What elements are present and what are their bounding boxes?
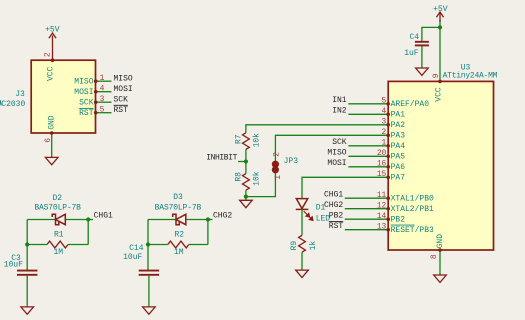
+5V power symbol at U3	[436, 12, 443, 17]
svg-text:2: 2	[382, 128, 387, 137]
svg-text:C2030: C2030	[1, 100, 25, 109]
capacitor C4 1uF	[415, 42, 429, 46]
svg-text:MOSI: MOSI	[74, 88, 93, 97]
wire R8 bottom to JP3 pin 1	[246, 173, 276, 197]
svg-text:VCC: VCC	[434, 87, 443, 102]
wire U3 PA7 to LED D1	[302, 177, 388, 198]
wire label CHG2 to U3 pin 12	[345, 208, 388, 210]
svg-text:GND: GND	[48, 115, 57, 130]
svg-text:CHG1: CHG1	[94, 212, 113, 221]
svg-text:9: 9	[432, 73, 441, 78]
svg-text:R8: R8	[234, 172, 243, 182]
wire R7 top to U3 PA2	[246, 125, 388, 133]
wire JP3 pin 2 to U3 PA3	[275, 135, 388, 161]
svg-text:16: 16	[377, 160, 387, 169]
svg-text:R1: R1	[54, 230, 64, 239]
wire R9 to ground	[301, 252, 303, 270]
LED D1	[296, 199, 309, 210]
svg-text:1: 1	[100, 74, 105, 83]
wire to diode D3 cathode	[148, 219, 176, 221]
svg-text:MISO: MISO	[327, 148, 346, 157]
svg-text:5: 5	[100, 106, 105, 115]
junction +5V node	[438, 25, 442, 29]
svg-text:MOSI: MOSI	[114, 85, 133, 94]
svg-text:6: 6	[44, 138, 53, 143]
wire +5V node to C4	[422, 27, 440, 41]
svg-text:PB2: PB2	[391, 215, 406, 224]
wire LED cathode to R9	[301, 209, 303, 235]
wire stub to INHIBIT label	[238, 161, 246, 163]
svg-text:IN1: IN1	[332, 96, 347, 105]
wire label RST to U3 pin 13	[345, 229, 388, 231]
svg-text:RST: RST	[329, 222, 344, 231]
svg-text:1: 1	[382, 139, 387, 148]
svg-text:CHG2: CHG2	[324, 201, 343, 210]
svg-text:C4: C4	[409, 33, 419, 42]
svg-text:VCC: VCC	[47, 66, 56, 81]
svg-text:MISO: MISO	[74, 78, 93, 87]
wire R1 right	[68, 244, 88, 246]
svg-text:10k: 10k	[252, 171, 261, 186]
svg-text:1M: 1M	[53, 248, 63, 257]
ground below R9	[296, 270, 309, 277]
svg-text:2: 2	[273, 152, 282, 157]
svg-text:PB2: PB2	[329, 211, 344, 220]
svg-text:+5V: +5V	[433, 5, 448, 14]
resistor R9 1k	[299, 235, 306, 252]
svg-text:PA2: PA2	[391, 121, 406, 130]
wire label IN1 to U3 pin 5	[348, 103, 388, 105]
svg-text:2: 2	[43, 52, 52, 57]
svg-text:INHIBIT: INHIBIT	[206, 154, 237, 163]
svg-text:CHG2: CHG2	[213, 212, 232, 221]
svg-text:IN2: IN2	[332, 106, 347, 115]
ground below U3	[434, 275, 447, 282]
svg-text:1: 1	[274, 175, 283, 180]
svg-text:SCK: SCK	[114, 95, 129, 104]
wire left rail to C3	[26, 220, 28, 271]
svg-text:3: 3	[100, 95, 105, 104]
svg-text:4: 4	[382, 107, 387, 116]
resistor R1 1M	[47, 241, 68, 248]
wire R8 bottom	[245, 190, 247, 200]
svg-text:8: 8	[430, 254, 439, 259]
J3 pin 3 (SCK) pin line	[96, 101, 111, 103]
wire R2 left	[148, 244, 168, 246]
resistor R7 10k	[243, 133, 250, 150]
svg-text:PA4: PA4	[391, 142, 406, 151]
junction INHIBIT node	[244, 159, 248, 163]
svg-text:SCK: SCK	[79, 99, 94, 108]
junction at C3 rail	[25, 242, 29, 246]
svg-text:PA7: PA7	[391, 173, 406, 182]
wire +5V to U3 VCC pin 9	[439, 20, 441, 81]
svg-text:BAS70LP-7B: BAS70LP-7B	[34, 203, 81, 212]
svg-text:R9: R9	[290, 241, 299, 251]
ground below C3	[21, 307, 34, 314]
wire diode D3 anode to CHG2 node	[186, 219, 208, 221]
svg-text:ATtiny24A-MM: ATtiny24A-MM	[443, 72, 498, 81]
wire C3 to ground	[26, 275, 28, 307]
svg-text:10uF: 10uF	[123, 253, 142, 262]
IC U3 ATtiny24A-MM body	[388, 81, 493, 250]
resistor R2 1M	[168, 241, 189, 248]
svg-text:PA1: PA1	[391, 110, 406, 119]
diode D3 BAS70LP-7B	[173, 214, 186, 225]
junction at C14 rail	[146, 242, 150, 246]
svg-text:D2: D2	[52, 194, 62, 203]
J3 pin 2 (VCC) line up	[52, 36, 54, 61]
svg-text:RST: RST	[114, 106, 129, 115]
junction R8 bottom node	[244, 195, 248, 199]
wire label PB2 to U3 pin 14	[345, 218, 388, 220]
wire to diode D2 cathode	[27, 219, 55, 221]
LED D1 emission arrows	[304, 211, 313, 220]
svg-text:XTAL1/PB0: XTAL1/PB0	[391, 194, 434, 203]
ground below J3	[45, 157, 58, 164]
svg-text:JP3: JP3	[284, 157, 299, 166]
J3 pin 5 (RST) pin line	[96, 112, 111, 114]
svg-text:C14: C14	[129, 244, 144, 253]
svg-text:1k: 1k	[309, 241, 318, 251]
jumper JP3	[272, 161, 279, 168]
junction CHG1 node	[86, 217, 90, 221]
svg-text:5: 5	[382, 97, 387, 106]
wire label SCK to U3 pin 1	[348, 145, 388, 147]
svg-text:R7: R7	[234, 134, 243, 144]
wire R7 bottom to R8 top	[245, 149, 247, 173]
svg-text:13: 13	[377, 223, 387, 232]
svg-text:20: 20	[377, 149, 387, 158]
J3 pin 1 (MISO) pin line	[96, 80, 111, 82]
wire label MISO to U3 pin 20	[348, 155, 388, 157]
svg-text:10uF: 10uF	[4, 260, 23, 269]
wire C14 to ground	[148, 275, 150, 307]
wire left rail to C14	[147, 220, 149, 271]
wire label CHG1 to U3 pin 11	[345, 197, 388, 199]
svg-text:RST: RST	[79, 109, 94, 118]
connector J3 body	[31, 60, 95, 133]
svg-text:R2: R2	[174, 230, 184, 239]
wire D3 anode down to R2	[207, 220, 209, 245]
ground below R8	[240, 200, 253, 207]
svg-text:MISO: MISO	[114, 74, 133, 83]
svg-text:D3: D3	[173, 193, 183, 202]
wire label IN2 to U3 pin 4	[348, 113, 388, 115]
ground below C4	[416, 68, 429, 75]
wire label MOSI to U3 pin 16	[348, 166, 388, 168]
wire D2 anode down to R1	[87, 220, 89, 245]
svg-text:12: 12	[377, 202, 387, 211]
svg-text:11: 11	[377, 191, 387, 200]
resistor R8 10k	[243, 174, 250, 191]
svg-text:15: 15	[377, 170, 387, 179]
wire diode D2 anode to CHG1 node	[65, 219, 88, 221]
J3 pin 4 (MOSI) pin line	[96, 91, 111, 93]
junction CHG2 node	[206, 217, 210, 221]
wire stub to CHG2 label	[208, 219, 213, 221]
wire U3 GND pin 8 to ground	[439, 250, 441, 275]
svg-text:SCK: SCK	[332, 138, 347, 147]
svg-text:RESET/PB3: RESET/PB3	[391, 226, 434, 235]
svg-text:+5V: +5V	[45, 26, 60, 35]
svg-text:PA6: PA6	[391, 163, 406, 172]
svg-text:3: 3	[382, 118, 387, 127]
wire R2 right	[189, 244, 208, 246]
svg-text:14: 14	[377, 212, 387, 221]
svg-text:PA5: PA5	[391, 152, 406, 161]
diode D2 BAS70LP-7B	[52, 214, 65, 225]
svg-text:AREF/PA0: AREF/PA0	[391, 100, 430, 109]
svg-text:PA3: PA3	[391, 131, 406, 140]
svg-text:J3: J3	[15, 90, 25, 99]
wire R1 left	[27, 244, 47, 246]
svg-text:GND: GND	[436, 234, 445, 249]
svg-text:10k: 10k	[253, 133, 262, 148]
wire C4 to ground	[421, 46, 423, 68]
svg-text:XTAL2/PB1: XTAL2/PB1	[391, 205, 434, 214]
svg-text:4: 4	[100, 85, 105, 94]
svg-text:BAS70LP-7B: BAS70LP-7B	[155, 203, 202, 212]
capacitor C14 10uF	[139, 271, 159, 275]
ground below C14	[143, 307, 156, 314]
svg-text:1uF: 1uF	[404, 49, 419, 58]
wire stub to CHG1 label	[88, 219, 93, 221]
svg-text:MOSI: MOSI	[327, 159, 346, 168]
capacitor C3 10uF	[17, 271, 37, 275]
wire J3 pin 6 to ground	[51, 133, 53, 157]
svg-text:1M: 1M	[174, 248, 184, 257]
+5V power symbol at J3	[49, 33, 56, 38]
svg-text:CHG1: CHG1	[324, 190, 343, 199]
